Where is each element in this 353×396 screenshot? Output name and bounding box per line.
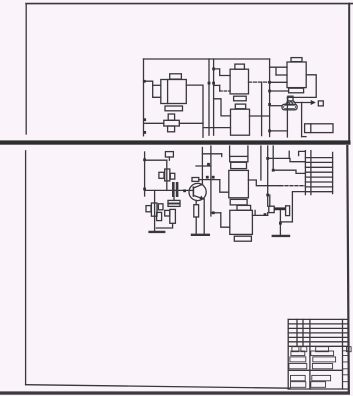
wire: mid rail A: [208, 59, 210, 135]
page 1 frame right border: [348, 4, 350, 140]
wire: p2 left rail: [144, 152, 146, 196]
wire R6 to ground: [195, 217, 197, 235]
node: dot B7 stub: [212, 211, 215, 214]
wire B7 right to rail: [252, 214, 267, 216]
connector XP1 right rail: [310, 151, 312, 195]
page 1 frame left border: [25, 4, 27, 134]
device U1 bottom bar: [289, 88, 304, 93]
title text box F2: [311, 382, 326, 388]
connector XP1 outer vertical: [332, 152, 334, 193]
node: dot mid rail B y68.9: [212, 68, 215, 71]
title text box D2: [312, 364, 332, 369]
device B6 bottom collar: [230, 199, 247, 205]
node: dot right rail y82.3: [268, 81, 271, 84]
transistor VT1 base bar: [192, 187, 194, 196]
device B7 bottom bar: [234, 236, 251, 241]
node: dot p2 left rail lower: [143, 188, 146, 191]
wire: p2 right rail: [267, 146, 269, 206]
wire B7 right riser: [254, 210, 256, 215]
wire W3 horizontal top left part: [202, 153, 221, 155]
wire stub band to collar right: [247, 146, 249, 156]
capacitor C2 filled bar: [274, 207, 286, 210]
resistor R3: [170, 209, 176, 223]
arrow head: [311, 100, 316, 105]
switch S1 base pill: [282, 104, 297, 110]
device B7 body: [230, 210, 253, 234]
wire A1 left lower vert: [219, 85, 221, 91]
title text box A1: [292, 347, 299, 352]
node: dot right rail y91: [268, 90, 271, 93]
node: dot right rail y104.5: [268, 103, 271, 106]
wire C2 bottom horizontal: [280, 221, 292, 223]
title text box B2: [311, 351, 334, 356]
transistor VT1 emitter stroke: [193, 195, 204, 199]
wire VT1 base: [184, 189, 194, 191]
wire stub band to collar left: [229, 146, 231, 156]
ground G3 bar: [273, 235, 289, 237]
wire right rail to U1: [270, 81, 287, 83]
wire dashed A1 right: [249, 81, 270, 83]
transistor VT1 circle: [189, 183, 206, 200]
title text box E1: [291, 375, 306, 380]
wire VT1 lower stub: [195, 200, 197, 204]
title block column v4: [342, 319, 344, 389]
title text box C2: [313, 357, 336, 362]
page 2 frame right border: [347, 146, 349, 391]
node: dot right rail y158.4: [266, 157, 269, 160]
wire B6 right stepped: [248, 180, 280, 186]
wire R3 bottom: [156, 223, 172, 228]
title text box B1: [291, 351, 305, 356]
wire A2 right: [250, 115, 270, 117]
node: dot right rail y130.9: [268, 130, 271, 133]
device B5 box: [305, 124, 333, 133]
wire M1 right to drop: [186, 85, 203, 137]
wire stub connector vertical: [275, 67, 277, 75]
arrow target square: [318, 101, 323, 106]
wire right rail to U1 bottom bar: [270, 90, 289, 92]
motor M1 bottom bar: [165, 106, 183, 111]
capacitor C1 plate1: [172, 182, 175, 197]
wire hook to M1: [144, 81, 161, 97]
wire B7 left stub: [211, 212, 221, 214]
capacitor C1 plate2: [176, 182, 179, 197]
title block column v2: [302, 319, 304, 346]
title text box C1: [290, 357, 306, 362]
device A2 top cap: [235, 104, 245, 109]
wire B7 left hook: [221, 213, 230, 227]
device A2 body: [231, 109, 250, 135]
component box small: [157, 212, 162, 220]
label square R2: [146, 206, 151, 212]
node: dot mid rail A y83.1: [208, 82, 211, 85]
wire B6 left hook: [220, 180, 229, 193]
page 2 frame left border: [25, 151, 27, 385]
emitter arrow: [200, 196, 205, 200]
wire left rail to K1: [145, 122, 164, 124]
wire: p2 right rail lower part: [267, 213, 269, 216]
title block upper rows: [288, 319, 348, 346]
title text box A4: [347, 347, 352, 352]
switch S1 head square: [288, 96, 293, 101]
resistor R1: [165, 169, 170, 181]
node: junction dot left rail y132.4: [143, 131, 146, 134]
wire K1 right to drop: [179, 122, 203, 124]
page 2 frame bottom border: [26, 385, 290, 389]
resistor R6: [194, 205, 199, 217]
component X1: [165, 210, 170, 216]
device A1 top cap: [235, 64, 245, 69]
wire stub to U1 upper: [270, 66, 287, 68]
wire: mid rail B: [213, 59, 215, 135]
title text box A2: [301, 347, 307, 352]
wire W3 end stub: [221, 154, 223, 157]
title block right column rows: [343, 351, 349, 382]
wire cap to C3: [173, 197, 175, 200]
device U1 top cap: [291, 58, 302, 62]
wire right rail to S1: [270, 105, 282, 107]
component R4 box: [165, 152, 173, 157]
title text box E2: [312, 375, 331, 380]
device B6 body: [229, 170, 249, 197]
wire W2 collector horizontal: [199, 179, 220, 181]
wire A1 left lower dashed: [220, 90, 230, 92]
switch S1 hatch: [286, 101, 296, 103]
transistor VT1 collector stroke: [193, 184, 202, 188]
title block bottom edge: [288, 388, 349, 390]
bottom page edge shadow band: [0, 391, 350, 394]
device B6 collar2: [231, 162, 247, 168]
wire stub to U1 lower: [276, 74, 287, 76]
node: dot base wire: [183, 189, 186, 192]
wire: p2 rail B: [210, 146, 212, 216]
wire: schematic outer right rail: [269, 59, 271, 137]
wire emitter drop: [203, 199, 205, 235]
node: dot rail2: [272, 169, 275, 172]
page edge shadow band between pages: [0, 140, 351, 144]
wire drop through R1: [166, 160, 168, 190]
wire: drop rail x260.9 from band: [260, 146, 262, 180]
wire R4 stub: [168, 157, 170, 160]
wire riser to connector: [292, 192, 305, 222]
wire drop from S1: [301, 103, 303, 137]
relay K1 bottom square: [168, 126, 175, 132]
wire hook top b: [299, 151, 306, 155]
node: dot right rail y195: [266, 194, 269, 197]
title text box F1: [291, 382, 306, 388]
motor M1 body: [161, 80, 187, 104]
title text box D1: [289, 364, 307, 369]
wire C2 drop to ground: [279, 210, 281, 235]
wire rail to C2: [269, 195, 271, 206]
label square R1 left: [159, 172, 164, 178]
node: junction dot left rail y81.2: [143, 80, 146, 83]
title block column v3: [309, 319, 311, 389]
wire: schematic outer left rail: [143, 59, 145, 136]
resistor R2: [151, 203, 157, 216]
wire dashed to connector: [280, 185, 305, 187]
wire A2 left hook: [214, 99, 231, 116]
label square R5: [158, 204, 163, 210]
wire rail to connector top: [268, 158, 306, 161]
node: junction dot left rail y119.7: [143, 118, 146, 121]
node: dot p2 left rail top: [143, 158, 146, 161]
capacitor C2 plate: [286, 206, 290, 216]
capacitor C2 square: [269, 206, 274, 212]
wire rail B to A1 hook: [214, 69, 231, 76]
title text box A3: [316, 347, 329, 352]
wire drop left cluster: [154, 190, 156, 232]
node: dot W1: [207, 163, 210, 166]
motor M1 inner divider: [167, 80, 169, 104]
switch S1 base pill inner: [284, 106, 296, 109]
wire stub top a: [288, 151, 290, 158]
relay K1 top square: [168, 114, 174, 120]
node: dot wire215: [264, 213, 267, 216]
relay K1 cross bar: [164, 120, 180, 126]
title block column v1: [296, 319, 298, 346]
node: dot W2 b: [212, 176, 215, 179]
ground G2 bar: [192, 234, 209, 236]
title block lower divider: [288, 369, 342, 371]
wire p2 top horizontal: [145, 159, 167, 161]
wire right rail to bottom: [270, 130, 288, 132]
wire drop x287.4: [286, 97, 288, 137]
wire: schematic outer top edge: [144, 58, 270, 60]
wire bottom stub: [302, 136, 306, 138]
title block left edge: [287, 319, 289, 389]
wire rail2 vertical: [272, 146, 274, 170]
device B6 collar1: [230, 156, 248, 161]
node: dot W2 a: [206, 176, 209, 179]
wire M1 left stub: [153, 84, 161, 86]
capacitor C3 bar2: [168, 204, 180, 207]
capacitor C3 bar1: [168, 200, 180, 203]
wire arrow line: [295, 102, 311, 104]
component box on collector wire: [192, 178, 199, 182]
wire collector drop: [201, 148, 203, 185]
device B7 top collar: [237, 205, 251, 210]
label square R1 right: [170, 173, 175, 179]
connector XP1 rungs: [305, 158, 332, 192]
wire to A2 from drop: [204, 127, 231, 129]
wire: drop rail x261.6: [261, 82, 263, 136]
node: dot mid rail B y83.1: [212, 82, 215, 85]
node: dot C2 drop: [279, 222, 282, 225]
wire A1 left lower stub: [214, 84, 220, 86]
page 1 frame top border: [26, 3, 353, 5]
motor M1 top cap: [170, 74, 182, 79]
device B5 divider: [310, 124, 312, 133]
ground G1 bar: [150, 231, 165, 233]
device A1 body: [230, 69, 248, 94]
connector XP1 left rail: [304, 151, 306, 195]
wire U1 right loop: [287, 75, 316, 98]
wire p2 main horizontal: [145, 189, 184, 191]
wire rail2 to connector: [273, 170, 305, 173]
device A1 bottom cap: [234, 96, 247, 101]
wire W1 horizontal: [196, 165, 211, 167]
device U1 body: [287, 62, 306, 88]
